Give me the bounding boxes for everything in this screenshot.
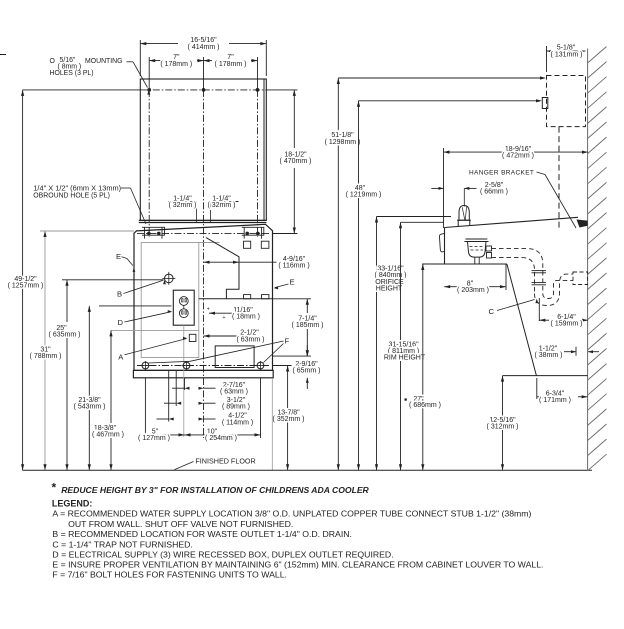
svg-text:( 543mm ): ( 543mm ) bbox=[74, 404, 106, 411]
bottom extension lines bbox=[144, 378, 146, 438]
cabinet bottom line side view bbox=[503, 375, 588, 377]
dim 1-1/2 (38mm) bbox=[575, 347, 577, 356]
svg-text:( 178mm ): ( 178mm ) bbox=[215, 61, 247, 68]
svg-text:B = RECOMMENDED LOCATION FOR W: B = RECOMMENDED LOCATION FOR WASTE OUTLE… bbox=[52, 529, 352, 539]
louver rectangle bbox=[215, 346, 254, 368]
obround centerline bbox=[137, 232, 270, 234]
svg-text:B: B bbox=[117, 290, 122, 299]
cooler top slant line bbox=[445, 217, 579, 227]
leader to obround hole bbox=[121, 187, 131, 189]
svg-text:( 635mm ): ( 635mm ) bbox=[49, 332, 81, 339]
dim 1-1/4 right (32mm) bbox=[211, 201, 239, 203]
svg-text:( 472mm ): ( 472mm ) bbox=[502, 152, 534, 159]
dim 31-15/16 rim height vertical bbox=[400, 222, 402, 470]
dim 49-1/2 (1257mm) line bbox=[22, 90, 24, 470]
svg-text:( 131mm ): ( 131mm ) bbox=[551, 51, 583, 58]
supply tube dashed vertical bbox=[558, 127, 560, 229]
trap U dashed bbox=[535, 274, 574, 305]
bolt hole F middle bbox=[183, 362, 190, 369]
inner panel outline bbox=[206, 238, 239, 299]
cabinet body outline bbox=[134, 224, 273, 370]
svg-text:*: * bbox=[52, 481, 57, 495]
dim 48 (1219mm) top line bbox=[359, 100, 541, 102]
water supply stub A bbox=[189, 334, 196, 341]
svg-text:( 1257mm ): ( 1257mm ) bbox=[8, 283, 44, 290]
wall pipe box dashed bbox=[573, 272, 588, 285]
dim 1-1/4 left (32mm) bbox=[168, 201, 197, 203]
svg-text:( 312mm ): ( 312mm ) bbox=[487, 424, 519, 431]
dim 48 vertical bbox=[358, 101, 360, 471]
basin strainer dashes bbox=[470, 246, 485, 248]
hanger bracket solid at wall bbox=[577, 220, 588, 228]
svg-text:( 171mm ): ( 171mm ) bbox=[539, 397, 571, 404]
outlet center gray extension bbox=[183, 325, 185, 437]
bolt hole F right bbox=[257, 362, 264, 369]
dim 6-1/4 (159mm) bbox=[539, 319, 549, 321]
leader to mounting hole bbox=[127, 61, 134, 63]
back panel rectangle bbox=[140, 79, 266, 220]
svg-text:( 127mm ): ( 127mm ) bbox=[138, 435, 170, 442]
svg-text:( 114mm ): ( 114mm ) bbox=[222, 419, 253, 426]
svg-text:( 1219mm ): ( 1219mm ) bbox=[346, 192, 382, 199]
svg-text:LEGEND:: LEGEND: bbox=[52, 498, 93, 508]
wall hatching bbox=[588, 47, 607, 64]
dim 2-1/2 (63mm) bbox=[204, 335, 239, 337]
svg-text:O: O bbox=[50, 58, 56, 65]
svg-text:( 32mm ): ( 32mm ) bbox=[208, 202, 236, 209]
electrical outlet box D bbox=[173, 290, 194, 325]
dim 3-1/2 (89mm) bbox=[164, 402, 176, 404]
svg-text:D = ELECTRICAL SUPPLY (3) WIRE: D = ELECTRICAL SUPPLY (3) WIRE RECESSED … bbox=[52, 550, 393, 560]
mounting hole left bbox=[148, 89, 151, 92]
svg-text:( 414mm ): ( 414mm ) bbox=[188, 44, 220, 51]
svg-text:F = 7/16" BOLT HOLES FOR FASTE: F = 7/16" BOLT HOLES FOR FASTENING UNITS… bbox=[52, 569, 287, 579]
svg-text:( 38mm ): ( 38mm ) bbox=[535, 352, 563, 359]
svg-text:1/4" X 1/2" (6mm X 13mm): 1/4" X 1/2" (6mm X 13mm) bbox=[33, 184, 121, 193]
svg-text:( 203mm ): ( 203mm ) bbox=[457, 287, 489, 294]
dim 7 inch right (178mm) bbox=[204, 60, 213, 62]
dim 8 (203mm) bbox=[444, 286, 460, 288]
recessed supply box dashed bbox=[547, 76, 586, 127]
back panel right inner edge bbox=[263, 79, 265, 220]
dim 2-7/16 (63mm) bbox=[172, 387, 185, 389]
svg-text:+: + bbox=[207, 307, 210, 313]
bolt hole F left bbox=[142, 362, 149, 369]
svg-text:HANGER BRACKET: HANGER BRACKET bbox=[469, 170, 534, 177]
svg-text:( 1298mm ): ( 1298mm ) bbox=[325, 139, 361, 146]
svg-text:HEIGHT: HEIGHT bbox=[376, 286, 403, 293]
dim 51-1/8 (1298mm) top line bbox=[338, 77, 544, 79]
svg-text:E: E bbox=[116, 252, 121, 261]
louver slots lower pair bbox=[244, 295, 251, 299]
svg-text:( 686mm ): ( 686mm ) bbox=[409, 402, 441, 409]
dim 27 (686mm) vertical bbox=[422, 264, 424, 470]
dim 4-9/16 (116mm) bbox=[204, 261, 277, 263]
obround bracket right bbox=[242, 227, 264, 235]
svg-text:( 185mm ): ( 185mm ) bbox=[292, 322, 324, 329]
mounting hole middle bbox=[202, 89, 205, 92]
svg-text:+: + bbox=[223, 315, 226, 321]
body right edge gray extension bbox=[271, 378, 273, 471]
front apron shape bbox=[439, 233, 444, 251]
svg-text:REDUCE HEIGHT BY 3" FOR INSTAL: REDUCE HEIGHT BY 3" FOR INSTALLATION OF … bbox=[61, 485, 369, 495]
svg-text:( 63mm ): ( 63mm ) bbox=[237, 336, 265, 343]
dim 7 inch left (178mm) bbox=[149, 60, 166, 62]
mounting centerline right bbox=[257, 57, 259, 90]
svg-text:5-1/8": 5-1/8" bbox=[557, 44, 576, 51]
dim 31 (788mm) line gray bbox=[44, 231, 46, 470]
inner panel bottom ext (gray) bbox=[111, 329, 199, 331]
svg-text:( 467mm ): ( 467mm ) bbox=[92, 431, 124, 438]
dim 2-9/16 (65mm) bbox=[273, 365, 292, 367]
basin drain stubs bbox=[474, 257, 476, 264]
floor line bbox=[23, 469, 310, 471]
svg-text:( 178mm ): ( 178mm ) bbox=[160, 61, 192, 68]
svg-text:( 32mm ): ( 32mm ) bbox=[169, 202, 197, 209]
dim 13-7/8 (352mm) bbox=[287, 366, 289, 471]
obround holes right bbox=[246, 232, 249, 235]
dim 33-1/16 orifice height vertical bbox=[376, 217, 378, 471]
duplex receptacle upper bbox=[179, 297, 188, 306]
cooler front edge upper bbox=[444, 228, 446, 265]
svg-text:OUT FROM WALL. SHUT OFF VALVE: OUT FROM WALL. SHUT OFF VALVE NOT FURNIS… bbox=[68, 519, 293, 529]
dim 5 (127mm) and 10 (254mm) bbox=[145, 434, 184, 436]
dim 2-5/8 (66mm) bbox=[431, 187, 443, 189]
tailpipe unions bbox=[532, 270, 547, 272]
svg-text:( 470mm ): ( 470mm ) bbox=[280, 158, 312, 165]
obround bracket left bbox=[142, 227, 165, 235]
svg-text:E = INSURE PROPER VENTILATION: E = INSURE PROPER VENTILATION BY MAINTAI… bbox=[52, 559, 543, 569]
dim 5-1/8 (131mm) bbox=[546, 46, 548, 72]
duplex receptacle lower bbox=[179, 309, 188, 318]
waste outlet circle B bbox=[165, 274, 174, 283]
mounting centerline left bbox=[148, 57, 150, 90]
svg-text:( 254mm ): ( 254mm ) bbox=[205, 435, 237, 442]
dim 11/16 (18mm) bbox=[209, 312, 232, 314]
svg-text:( 840mm ): ( 840mm ) bbox=[375, 272, 407, 279]
drain fitting bbox=[486, 246, 492, 251]
svg-text:( 63mm ): ( 63mm ) bbox=[220, 389, 248, 396]
svg-text:E: E bbox=[290, 278, 295, 287]
svg-text:( 116mm ): ( 116mm ) bbox=[278, 263, 309, 270]
svg-text:( 65mm ): ( 65mm ) bbox=[293, 368, 321, 375]
dim 7-1/4 (185mm) bbox=[273, 298, 312, 300]
svg-text:C = 1-1/4" TRAP NOT FURNISHED.: C = 1-1/4" TRAP NOT FURNISHED. bbox=[52, 540, 192, 550]
obround holes left bbox=[148, 232, 151, 235]
tailpipe centerline extension bbox=[538, 298, 540, 321]
svg-text:( 352mm ): ( 352mm ) bbox=[273, 416, 305, 423]
mounting hole right bbox=[256, 89, 259, 92]
dim 25 (635mm) line bbox=[66, 280, 68, 322]
svg-text:( 788mm ): ( 788mm ) bbox=[30, 353, 62, 360]
cabinet diagonal lower front bbox=[507, 264, 537, 376]
mounting hole centerline horizontal bbox=[23, 89, 141, 91]
dim 18-9/16 (472mm) bbox=[443, 148, 445, 228]
svg-text:FINISHED FLOOR: FINISHED FLOOR bbox=[195, 456, 255, 465]
ledge line bbox=[422, 263, 507, 265]
bubbler bbox=[458, 220, 470, 226]
dim 51-1/8 vertical bbox=[337, 78, 339, 470]
inner recess panel (gray) bbox=[141, 243, 199, 358]
svg-text:MOUNTING: MOUNTING bbox=[85, 58, 123, 65]
svg-text:A = RECOMMENDED WATER SUPPLY L: A = RECOMMENDED WATER SUPPLY LOCATION 3/… bbox=[52, 509, 531, 519]
page edge tick bbox=[0, 54, 6, 56]
svg-text:( 66mm ): ( 66mm ) bbox=[480, 189, 508, 196]
cabinet bottom flange bbox=[133, 370, 273, 377]
ledge corner vertical ext bbox=[505, 264, 507, 290]
dim 12-5/16 (312mm) bbox=[502, 376, 504, 471]
dim 6-3/4 (171mm) bbox=[536, 378, 538, 399]
svg-text:C: C bbox=[489, 307, 495, 316]
basin side section bbox=[465, 238, 487, 240]
dim 21-3/8 (543mm) bbox=[99, 305, 172, 307]
dim 4-1/2 (114mm) bbox=[157, 418, 169, 420]
wall line bbox=[587, 49, 589, 471]
drain pipe dashed horizontal bbox=[492, 249, 543, 294]
svg-text:OBROUND HOLE (5 PL): OBROUND HOLE (5 PL) bbox=[33, 193, 110, 200]
dim 18-1/2 (470mm) right of back panel bbox=[266, 89, 297, 91]
svg-text:RIM HEIGHT: RIM HEIGHT bbox=[384, 355, 426, 362]
hanger strip double line bbox=[139, 219, 267, 221]
svg-text:F: F bbox=[285, 337, 290, 346]
dim 25 (635mm) extension bbox=[62, 279, 164, 281]
svg-text:( 18mm ): ( 18mm ) bbox=[232, 314, 260, 321]
supply stub in box bbox=[542, 98, 548, 109]
louver top line bbox=[199, 298, 273, 300]
dim 16-5/16 (414mm) overall width bbox=[139, 40, 141, 76]
svg-text:HOLES (3 PL): HOLES (3 PL) bbox=[50, 70, 94, 77]
svg-text:( 89mm ): ( 89mm ) bbox=[222, 404, 250, 411]
dim 18-3/8 (467mm) bbox=[110, 330, 112, 470]
svg-text:( 159mm ): ( 159mm ) bbox=[551, 321, 583, 328]
mounting centerline middle bbox=[203, 57, 205, 90]
louver slots upper pair bbox=[244, 241, 251, 248]
svg-text:D: D bbox=[118, 318, 124, 327]
bolt hole centerline bbox=[137, 365, 271, 367]
